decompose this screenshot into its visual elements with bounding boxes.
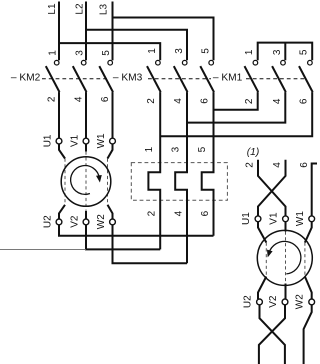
svg-text:6: 6	[100, 96, 111, 102]
left motor winding V dashed axis	[85, 152, 87, 212]
svg-text:5: 5	[201, 48, 212, 54]
svg-text:6: 6	[200, 98, 211, 104]
svg-text:3: 3	[171, 146, 182, 152]
wire U1 into right stator	[258, 222, 266, 243]
wire KM2 6 to motor	[112, 92, 114, 138]
inset wire 2 crossing to V1	[258, 160, 286, 216]
right motor winding W dashed axis	[304, 243, 306, 277]
left motor terminal V2	[83, 219, 89, 225]
board link 1-2	[148, 92, 160, 249]
svg-text:2: 2	[46, 96, 57, 102]
contact circle KM2 pole 1	[54, 60, 59, 65]
wire V1 into stator	[85, 144, 87, 152]
svg-text:V1: V1	[269, 212, 280, 225]
wire stator to W2	[108, 205, 113, 219]
right motor W2 wire down	[304, 305, 312, 364]
svg-text:U1: U1	[43, 134, 54, 147]
wire KM1.6 to KM3.2 node	[160, 92, 312, 136]
left motor terminal W1	[110, 138, 116, 144]
wire L1 vertical	[58, 2, 60, 61]
right motor V2 wire crossing down	[259, 305, 285, 364]
svg-text:4: 4	[173, 98, 184, 104]
svg-text:L3: L3	[99, 4, 110, 16]
left motor terminal U1	[56, 138, 62, 144]
contact circle KM1 pole 3	[308, 60, 313, 65]
board link 5-6	[202, 92, 214, 236]
wire V2 to board 2	[86, 225, 160, 250]
right motor terminal W1	[309, 216, 315, 222]
wire stator to V2	[85, 211, 87, 219]
terminal board dashed box	[131, 163, 227, 201]
svg-text:6: 6	[200, 210, 211, 216]
right motor terminal U2	[257, 299, 263, 305]
KM1 mechanical link dashed	[246, 78, 306, 80]
contact circle KM2 pole 3	[108, 60, 113, 65]
board link 3-4	[175, 92, 187, 263]
svg-text:– KM2: – KM2	[11, 72, 41, 83]
KM3 mechanical link dashed	[148, 78, 211, 80]
right motor rotation arrowhead	[267, 250, 273, 258]
thin lead-in line	[0, 248, 86, 250]
wire W1 into stator	[108, 144, 113, 159]
svg-text:U2: U2	[242, 295, 253, 308]
right motor rotation arrow arc	[269, 241, 301, 274]
wire L2 vertical	[85, 2, 87, 61]
wire right stator to W2	[305, 277, 312, 300]
wire L3 vertical	[112, 2, 114, 61]
contact blade KM2 pole 2	[73, 66, 87, 92]
wire KM1.2 to KM3.6 node	[214, 92, 258, 110]
svg-text:3: 3	[75, 50, 86, 56]
wire right stator to V2	[285, 284, 287, 300]
contact blade KM1 pole 2	[272, 66, 286, 92]
svg-text:5: 5	[299, 49, 310, 55]
svg-text:1: 1	[144, 146, 155, 152]
left motor terminal W2	[110, 219, 116, 225]
left motor terminal U2	[56, 219, 62, 225]
wire L1 branch to KM3 pole 1	[59, 43, 160, 60]
svg-text:6: 6	[299, 98, 310, 104]
svg-text:– KM1: – KM1	[213, 72, 243, 83]
wire L3 branch to KM3 pole 5	[113, 18, 214, 61]
contact circle KM2 pole 2	[81, 60, 86, 65]
contact circle KM1 pole 2	[281, 60, 286, 65]
wire L2 branch to KM3 pole 3	[86, 30, 187, 61]
svg-text:4: 4	[173, 210, 184, 216]
svg-text:(1): (1)	[247, 147, 259, 158]
contact blade KM2 pole 1	[46, 66, 60, 92]
right motor terminal V1	[283, 216, 289, 222]
svg-text:2: 2	[244, 162, 255, 168]
svg-text:4: 4	[272, 162, 283, 168]
left motor rotation arrow arc	[71, 166, 100, 195]
contact circle KM3 pole 1	[156, 60, 161, 65]
svg-text:U1: U1	[241, 212, 252, 225]
svg-text:1: 1	[244, 49, 255, 55]
wire stator to U2	[59, 205, 65, 219]
svg-text:3: 3	[272, 49, 283, 55]
right motor terminal V2	[282, 299, 288, 305]
wire right stator to U2	[258, 277, 266, 300]
contact blade KM1 pole 1	[245, 66, 259, 92]
svg-text:3: 3	[174, 48, 185, 54]
contact circle KM3 pole 3	[209, 60, 214, 65]
svg-text:V1: V1	[70, 134, 81, 147]
svg-text:W2: W2	[96, 214, 107, 229]
svg-text:W2: W2	[295, 294, 306, 309]
svg-text:4: 4	[73, 96, 84, 102]
svg-text:2: 2	[244, 98, 255, 104]
inset wire 6 to W1	[312, 164, 317, 216]
svg-text:V2: V2	[268, 295, 279, 308]
left motor winding W dashed axis	[107, 159, 109, 205]
contact blade KM3 pole 2	[174, 66, 188, 92]
right motor winding U dashed axis	[265, 243, 267, 277]
contact blade KM2 pole 3	[99, 66, 113, 92]
contact blade KM3 pole 1	[147, 66, 161, 92]
contact circle KM3 pole 2	[182, 60, 187, 65]
KM1 star bridge bus	[258, 43, 313, 61]
right motor terminal U1	[255, 216, 261, 222]
right motor terminal W2	[309, 299, 315, 305]
contact circle KM1 pole 1	[253, 60, 258, 65]
wire U1 into stator	[59, 144, 65, 159]
inset wire 4 crossing to U1	[258, 160, 286, 216]
svg-text:V2: V2	[70, 215, 81, 228]
svg-text:L1: L1	[47, 3, 58, 15]
svg-text:W1: W1	[295, 211, 306, 226]
svg-text:L2: L2	[74, 3, 85, 15]
contact blade KM1 pole 3	[299, 66, 313, 92]
svg-text:U2: U2	[43, 215, 54, 228]
left motor terminal V1	[83, 138, 89, 144]
wire W2 to board 4	[113, 225, 188, 264]
left motor M1 body	[61, 157, 111, 207]
right motor M2 body	[257, 230, 312, 285]
svg-text:4: 4	[272, 98, 283, 104]
wire V1 into right stator	[285, 222, 287, 232]
svg-text:5: 5	[101, 50, 112, 56]
contact blade KM3 pole 3	[200, 66, 214, 92]
svg-text:2: 2	[147, 210, 158, 216]
wire KM1.4 to KM3.4 node	[187, 92, 285, 123]
svg-text:1: 1	[48, 50, 59, 56]
svg-text:6: 6	[299, 162, 310, 168]
svg-text:2: 2	[146, 98, 157, 104]
wire U2 to board 6	[59, 225, 214, 236]
left motor winding U dashed axis	[64, 159, 66, 205]
svg-text:– KM3: – KM3	[113, 72, 143, 83]
right motor U2 wire crossing down	[260, 305, 285, 364]
wire W1 into right stator	[305, 222, 312, 243]
wire KM2 4 to motor	[85, 92, 87, 138]
svg-text:W1: W1	[96, 133, 107, 148]
svg-text:5: 5	[197, 146, 208, 152]
left motor rotation arrowhead	[96, 175, 102, 183]
right motor winding V dashed axis	[285, 232, 287, 284]
svg-text:1: 1	[147, 48, 158, 54]
wire KM2 2 to motor	[58, 92, 60, 138]
KM2 mechanical link dashed	[42, 78, 109, 80]
